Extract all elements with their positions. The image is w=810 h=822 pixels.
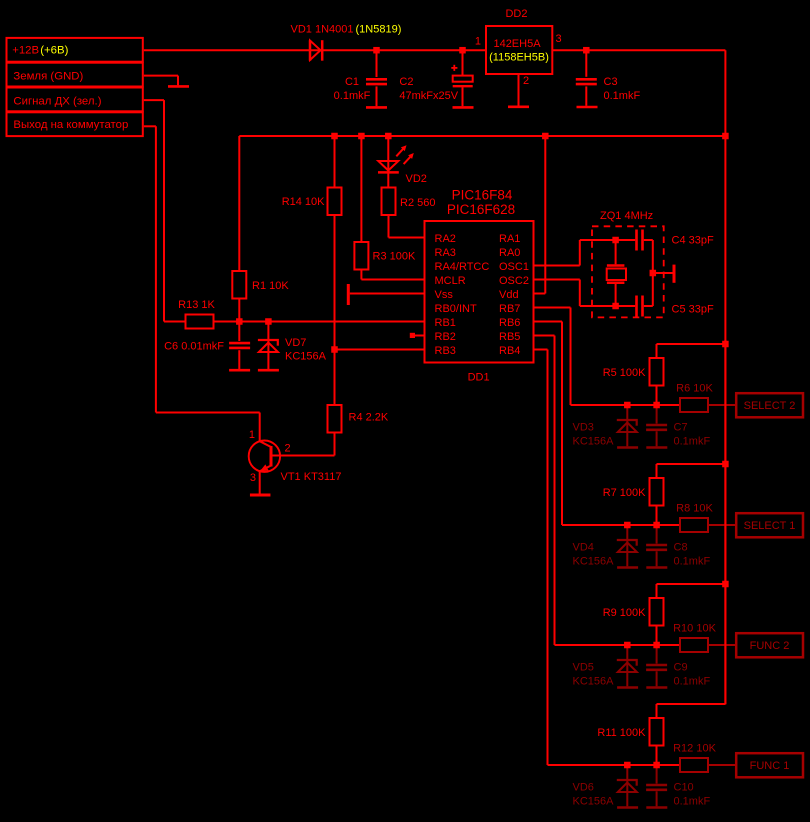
- node crystal top: [612, 237, 619, 244]
- svg-text:VT1 KT3117: VT1 KT3117: [281, 471, 342, 483]
- ground under C10: [646, 806, 667, 809]
- ground under C7: [646, 446, 667, 449]
- capacitor C1: [376, 50, 378, 77]
- svg-text:VD3: VD3: [573, 422, 594, 434]
- wire R7 top line to bus: [657, 463, 726, 465]
- node junction VD7 on RB1 line: [265, 318, 272, 325]
- ground under VD3: [617, 446, 638, 449]
- node junction C10 on signal line: [653, 762, 660, 769]
- svg-text:ZQ1 4MHz: ZQ1 4MHz: [600, 210, 653, 222]
- svg-text:+12В: +12В: [12, 45, 39, 57]
- svg-text:(+6В): (+6В): [40, 45, 68, 57]
- svg-text:KC156A: KC156A: [285, 350, 327, 362]
- node junction bus and rail2: [722, 133, 729, 140]
- capacitor C2 polarized: [462, 50, 464, 75]
- wire RB3 to R4: [335, 349, 425, 351]
- svg-text:142EH5A: 142EH5A: [493, 38, 541, 50]
- capacitor C8 0.1mkF: [656, 525, 658, 544]
- resistor R10 10K: [680, 638, 708, 652]
- svg-text:VD2: VD2: [406, 173, 427, 185]
- svg-text:Vss: Vss: [435, 289, 454, 301]
- node junction bus SELECT 1: [722, 461, 729, 468]
- zener diode VD6 KC156A: [626, 765, 628, 779]
- svg-text:DD1: DD1: [468, 372, 490, 384]
- node junction VD5 on signal line: [624, 642, 631, 649]
- resistor R12 10K: [680, 758, 708, 772]
- wire signal line FUNC 1: [548, 764, 681, 766]
- wire +5V distribution rail: [239, 135, 725, 137]
- svg-text:RB4: RB4: [499, 345, 520, 357]
- node junction C1 on rail: [373, 47, 380, 54]
- resistor R11 100K: [656, 704, 658, 718]
- svg-text:RA4/RTCC: RA4/RTCC: [435, 261, 490, 273]
- svg-text:RB5: RB5: [499, 331, 520, 343]
- wire +5V rail from DD2 pin3 to right bus: [552, 49, 725, 51]
- ground under C3: [577, 106, 598, 109]
- svg-text:FUNC 2: FUNC 2: [750, 640, 790, 652]
- svg-text:C7: C7: [674, 422, 688, 434]
- ground under C6: [229, 369, 250, 372]
- wire signal line FUNC 2: [555, 644, 681, 646]
- node junction VD3 on signal line: [624, 402, 631, 409]
- svg-text:VD4: VD4: [573, 542, 594, 554]
- svg-text:R4 2.2K: R4 2.2K: [349, 412, 389, 424]
- resistor R9 100K: [656, 584, 658, 598]
- resistor R5 100K: [656, 344, 658, 358]
- connector box SELECT 2: [736, 393, 803, 417]
- ground under C9: [646, 686, 667, 689]
- wire R8 to SELECT 1 box: [708, 524, 735, 526]
- ground at Vss: [350, 293, 425, 295]
- wire +12V rail from box to DD2 pin1: [144, 49, 486, 51]
- svg-text:DD2: DD2: [505, 8, 527, 20]
- resistor R6 10K: [680, 398, 708, 412]
- capacitor C6: [238, 322, 240, 342]
- svg-text:VD1 1N4001: VD1 1N4001: [291, 24, 354, 36]
- svg-text:C6 0.01mkF: C6 0.01mkF: [164, 341, 224, 353]
- ground under VD4: [617, 566, 638, 569]
- svg-text:KC156A: KC156A: [573, 796, 615, 808]
- svg-text:C1: C1: [345, 76, 359, 88]
- svg-text:1: 1: [249, 429, 255, 441]
- wire RB2 stub: [413, 335, 425, 337]
- connector box hall sensor signal: [7, 88, 143, 112]
- svg-text:RA3: RA3: [435, 247, 456, 259]
- wire R11 top line to bus: [657, 703, 726, 705]
- pin 2 DD2 wire to ground: [518, 74, 520, 106]
- node RB2 terminal dot: [410, 333, 415, 338]
- svg-text:(1N5819): (1N5819): [356, 24, 402, 36]
- node junction R3 on rail2: [358, 133, 365, 140]
- svg-text:MCLR: MCLR: [435, 275, 466, 287]
- svg-text:RB0/INT: RB0/INT: [435, 303, 477, 315]
- wire R9 top line to bus: [657, 583, 726, 585]
- zener diode VD5 KC156A: [626, 645, 628, 659]
- wire OSC1 to crystal: [534, 265, 580, 267]
- wire R10 to FUNC 2 box: [708, 644, 735, 646]
- resistor R13 1K: [186, 315, 214, 329]
- svg-text:C2: C2: [399, 76, 413, 88]
- svg-text:KC156A: KC156A: [573, 436, 615, 448]
- node junction C3 on rail: [583, 47, 590, 54]
- diode VD1: [309, 40, 312, 61]
- capacitor C4 33pF: [635, 230, 638, 251]
- resistor R14 10K: [334, 136, 336, 188]
- svg-text:0.1mkF: 0.1mkF: [674, 556, 711, 568]
- svg-text:FUNC 1: FUNC 1: [750, 760, 790, 772]
- capacitor C3: [585, 50, 587, 77]
- wire RB7 to select2 line: [534, 307, 571, 309]
- svg-text:R11 100K: R11 100K: [597, 727, 646, 739]
- crystal ZQ1 symbol: [615, 240, 617, 264]
- svg-text:R10 10K: R10 10K: [673, 623, 716, 635]
- resistor R8 10K: [680, 518, 708, 532]
- wire crystal right vertical: [652, 240, 654, 306]
- svg-text:3: 3: [250, 472, 256, 484]
- svg-text:RB3: RB3: [435, 345, 456, 357]
- svg-text:C10: C10: [674, 782, 694, 794]
- svg-text:C5 33pF: C5 33pF: [672, 303, 714, 315]
- wire signal line SELECT 1: [562, 524, 680, 526]
- svg-text:0.1mkF: 0.1mkF: [604, 90, 641, 102]
- ground under VD7: [258, 369, 279, 372]
- svg-text:VD6: VD6: [573, 782, 594, 794]
- wire GND stub from box: [144, 75, 178, 77]
- LED arrows: [396, 149, 403, 157]
- wire R12 to FUNC 1 box: [708, 764, 735, 766]
- connector box SELECT 1: [736, 513, 803, 537]
- node junction R14 on rail2: [331, 133, 338, 140]
- crystal ZQ1 dashed outline: [592, 226, 664, 317]
- LED VD2: [387, 136, 389, 172]
- node junction C7 on signal line: [653, 402, 660, 409]
- capacitor C9 0.1mkF: [656, 645, 658, 664]
- wire OSC2 to crystal: [534, 279, 580, 281]
- zener diode VD4 KC156A: [626, 525, 628, 539]
- svg-text:R1 10K: R1 10K: [252, 280, 289, 292]
- svg-text:R14 10K: R14 10K: [282, 196, 325, 208]
- svg-text:VD5: VD5: [573, 662, 594, 674]
- svg-text:KC156A: KC156A: [573, 676, 615, 688]
- resistor R3 100K: [360, 136, 362, 242]
- svg-text:RB2: RB2: [435, 331, 456, 343]
- node junction VD2 on rail2: [385, 133, 392, 140]
- svg-text:C3: C3: [604, 76, 618, 88]
- node junction VD6 on signal line: [624, 762, 631, 769]
- svg-text:0.1mkF: 0.1mkF: [674, 676, 711, 688]
- svg-text:(1158EH5B): (1158EH5B): [489, 52, 549, 64]
- svg-text:R12 10K: R12 10K: [673, 743, 716, 755]
- node junction VD4 on signal line: [624, 522, 631, 529]
- node junction bus SELECT 2: [722, 341, 729, 348]
- resistor R4 2.2K: [334, 350, 336, 406]
- wire RB5 to func2 line: [534, 335, 555, 337]
- capacitor C7 0.1mkF: [656, 405, 658, 424]
- svg-text:0.1mkF: 0.1mkF: [334, 90, 371, 102]
- svg-text:R3 100K: R3 100K: [373, 251, 416, 263]
- svg-text:R6 10K: R6 10K: [676, 383, 713, 395]
- wire right +5V bus vertical: [724, 50, 726, 704]
- svg-text:PIC16F628: PIC16F628: [447, 202, 515, 217]
- svg-text:2: 2: [523, 75, 529, 87]
- node crystal bottom: [612, 303, 619, 310]
- svg-text:RB6: RB6: [499, 317, 520, 329]
- ground under C1: [366, 106, 387, 109]
- ground under C2: [453, 106, 474, 109]
- connector box FUNC 2: [736, 633, 803, 657]
- svg-text:C4 33pF: C4 33pF: [672, 235, 714, 247]
- ground under VD5: [617, 686, 638, 689]
- node junction C2 on rail: [459, 47, 466, 54]
- wire R5 top line to bus: [657, 343, 726, 345]
- connector box output to commutator: [7, 112, 143, 136]
- wire RB4 to func1 line: [534, 349, 548, 351]
- connector box +12V: [7, 38, 143, 62]
- wire Vdd to +5V rail: [534, 293, 546, 295]
- svg-text:SELECT 2: SELECT 2: [744, 400, 796, 412]
- svg-text:RA2: RA2: [435, 233, 456, 245]
- svg-text:1: 1: [475, 35, 481, 47]
- connector box FUNC 1: [736, 753, 803, 777]
- resistor R1 10K: [238, 136, 240, 271]
- svg-text:3: 3: [556, 33, 562, 45]
- svg-text:RA0: RA0: [499, 247, 520, 259]
- node junction Vdd on rail2: [542, 133, 549, 140]
- node junction bus FUNC 2: [722, 581, 729, 588]
- svg-text:PIC16F84: PIC16F84: [452, 188, 513, 203]
- node crystal mid right: [650, 270, 657, 277]
- svg-text:0.1mkF: 0.1mkF: [674, 796, 711, 808]
- svg-text:R13 1K: R13 1K: [178, 299, 215, 311]
- capacitor C5 33pF: [635, 296, 638, 317]
- svg-text:R5 100K: R5 100K: [603, 367, 646, 379]
- svg-text:Выход на коммутатор: Выход на коммутатор: [13, 119, 128, 131]
- capacitor C10 0.1mkF: [656, 765, 658, 784]
- svg-text:VD7: VD7: [285, 337, 306, 349]
- node junction C8 on signal line: [653, 522, 660, 529]
- svg-text:R7 100K: R7 100K: [603, 487, 646, 499]
- svg-text:R9 100K: R9 100K: [603, 607, 646, 619]
- svg-text:OSC1: OSC1: [499, 261, 529, 273]
- svg-text:C9: C9: [674, 662, 688, 674]
- wire R6 to SELECT 2 box: [708, 404, 735, 406]
- svg-text:Vdd: Vdd: [499, 289, 519, 301]
- zener diode VD7: [267, 322, 269, 340]
- wire RB6 to select1 line: [534, 321, 563, 323]
- svg-text:0.1mkF: 0.1mkF: [674, 436, 711, 448]
- ground under VT1 emitter: [250, 494, 271, 497]
- connector box GND: [7, 63, 143, 87]
- ground GND box: [168, 85, 189, 88]
- svg-text:SELECT 1: SELECT 1: [744, 520, 796, 532]
- IC DD1 PIC16F84 box: [425, 221, 534, 363]
- svg-text:R8 10K: R8 10K: [676, 503, 713, 515]
- wire signal DX from box to R13: [144, 99, 164, 101]
- ground under DD2 pin2: [508, 106, 529, 109]
- wire right +5V bus overdraw at crossings: [724, 340, 726, 704]
- resistor R2 560: [387, 172, 389, 187]
- ground at crystal: [653, 272, 673, 274]
- svg-text:47mkFx25V: 47mkFx25V: [399, 90, 458, 102]
- wire signal line SELECT 2: [571, 404, 681, 406]
- wire RB1 line from R13 to DD1: [213, 321, 425, 323]
- svg-text:Земля (GND): Земля (GND): [13, 70, 83, 82]
- wire output-to-commutator to VT1 collector: [144, 125, 156, 127]
- transistor VT1 KT3117: [249, 441, 280, 472]
- node junction R14/R4 on RB3 line: [331, 346, 338, 353]
- svg-text:RA1: RA1: [499, 233, 520, 245]
- zener diode VD3 KC156A: [626, 405, 628, 419]
- svg-text:RB7: RB7: [499, 303, 520, 315]
- resistor R7 100K: [656, 464, 658, 478]
- node junction R1/C6 on RB1 line: [236, 318, 243, 325]
- regulator DD2 box: [486, 26, 552, 74]
- svg-text:Сигнал ДХ (зел.): Сигнал ДХ (зел.): [13, 96, 101, 108]
- svg-text:R2 560: R2 560: [400, 197, 435, 209]
- svg-text:KC156A: KC156A: [573, 556, 615, 568]
- ground under C8: [646, 566, 667, 569]
- node junction C9 on signal line: [653, 642, 660, 649]
- svg-text:C8: C8: [674, 542, 688, 554]
- svg-text:RB1: RB1: [435, 317, 456, 329]
- ground under VD6: [617, 806, 638, 809]
- svg-text:OSC2: OSC2: [499, 275, 529, 287]
- svg-text:2: 2: [285, 443, 291, 455]
